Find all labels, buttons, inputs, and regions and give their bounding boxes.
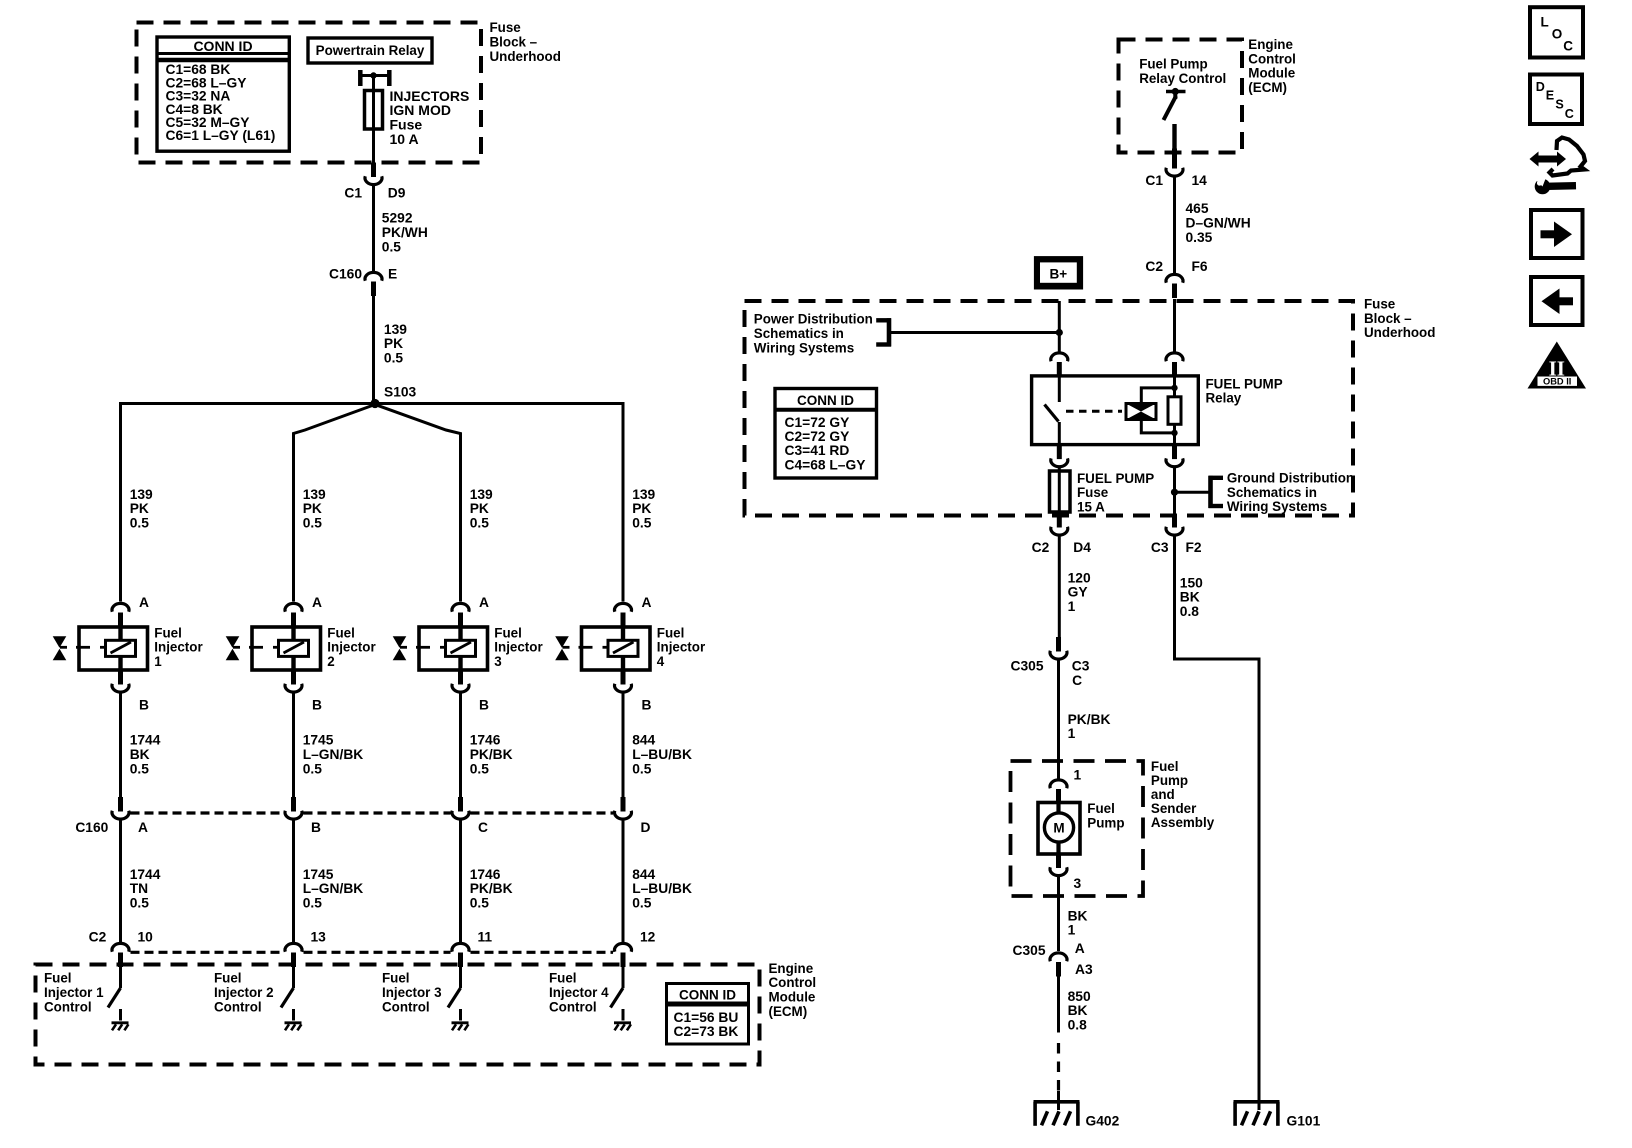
fuel injector 2 pintle valve (226, 636, 240, 660)
svg-text:and: and (1151, 787, 1175, 802)
svg-text:C2=73 BK: C2=73 BK (674, 1024, 739, 1039)
svg-text:M: M (1053, 821, 1064, 836)
svg-text:Underhood: Underhood (490, 49, 561, 64)
label PK/BK 1 (1068, 712, 1111, 741)
svg-text:PK: PK (470, 501, 489, 516)
svg-text:Fuel: Fuel (657, 625, 685, 640)
fuel injector 4 coil (608, 640, 638, 656)
label 139 PK 0.5 (branch 4) (632, 487, 655, 531)
label Fuel Injector 1 Control (44, 971, 104, 1015)
wire injector 2 to C160 (292, 693, 295, 797)
wire to ground injector 3 driver (459, 1009, 462, 1021)
label wire 1744 (lower) (130, 867, 161, 911)
label wire 844 (lower) (632, 867, 692, 911)
fuel injector 4 actuator dashes (579, 646, 609, 649)
fuel injector 1 pintle valve (53, 636, 67, 660)
ECM box (top right) outline (1119, 40, 1243, 153)
svg-text:O: O (1552, 27, 1563, 42)
svg-text:Fuel: Fuel (214, 971, 242, 986)
connector pump pin 1 (1050, 780, 1067, 804)
svg-text:0.5: 0.5 (470, 761, 490, 776)
label Ground Distribution Schematics in Wiring Systems (1227, 471, 1354, 515)
label wire 1744 (upper) (130, 733, 161, 777)
svg-text:844: 844 (632, 733, 655, 748)
label Fuel Injector 4 (657, 625, 706, 669)
label F2 (1186, 540, 1202, 555)
svg-text:L–GN/BK: L–GN/BK (303, 747, 364, 762)
fuel pump and sender assembly outline (1011, 761, 1144, 896)
wire to ground injector 4 driver (622, 1009, 625, 1021)
svg-text:OBD II: OBD II (1543, 377, 1571, 387)
svg-text:C: C (1565, 107, 1574, 121)
label INJECTORS IGN MOD Fuse 10A (390, 88, 470, 147)
wire injector 2 control to ECM (292, 820, 295, 942)
svg-text:Assembly: Assembly (1151, 815, 1215, 830)
connector A injector 1 (112, 603, 129, 627)
label E (388, 267, 397, 282)
connector C305 cavity C3/C (1050, 637, 1067, 659)
svg-text:PK/BK: PK/BK (470, 747, 513, 762)
svg-text:Relay: Relay (1206, 391, 1242, 406)
wire to ground injector 2 driver (292, 1009, 295, 1021)
svg-text:Sender: Sender (1151, 801, 1197, 816)
svg-text:F6: F6 (1192, 259, 1208, 274)
wire relay to fuse (372, 77, 375, 92)
wire injector 1 to C160 (119, 693, 122, 797)
fuel pump relay resistor (1168, 397, 1181, 425)
icon back arrow box (1531, 277, 1583, 325)
connector pump pin 3 (1050, 854, 1067, 876)
svg-text:0.5: 0.5 (130, 761, 150, 776)
svg-text:Power Distribution: Power Distribution (754, 312, 873, 327)
wire B+ down (1058, 301, 1061, 352)
connector B injector 2 (285, 670, 302, 692)
wire 465 D-GN/WH (1173, 177, 1176, 273)
label Fuel Injector 2 (327, 625, 376, 669)
label wire 1745 (lower) (303, 867, 364, 911)
svg-text:L: L (1541, 15, 1549, 30)
svg-text:F2: F2 (1186, 540, 1202, 555)
connector C1/D9 (365, 163, 382, 185)
svg-text:0.5: 0.5 (470, 896, 490, 911)
connector C160 cavity A (112, 797, 129, 819)
wire into ECM driver 4 (622, 967, 625, 988)
svg-text:L–BU/BK: L–BU/BK (632, 747, 692, 762)
svg-text:Injector 1: Injector 1 (44, 985, 104, 1000)
svg-text:Injector: Injector (494, 640, 543, 655)
svg-text:B+: B+ (1049, 266, 1067, 281)
wire injector 3 control to ECM (459, 820, 462, 942)
svg-text:D: D (1536, 80, 1545, 94)
svg-text:D: D (641, 820, 651, 835)
svg-text:1744: 1744 (130, 733, 161, 748)
connector C160 cavity B (285, 797, 302, 819)
svg-text:Fuel: Fuel (382, 971, 410, 986)
svg-text:C1=56 BU: C1=56 BU (674, 1010, 739, 1025)
label BK 1 (1068, 908, 1088, 937)
junction B+ / power distribution (1056, 329, 1063, 336)
label C2 pin 11 (478, 930, 493, 945)
icon wrench with routing arrow (1530, 138, 1586, 195)
fuel injector 1 box (79, 627, 148, 670)
svg-text:B: B (312, 698, 322, 713)
svg-text:139: 139 (130, 487, 153, 502)
fuel injector 3 wire through box (458, 627, 462, 671)
label pin A injector 3 (479, 595, 489, 610)
svg-text:Fuse: Fuse (1077, 485, 1108, 500)
svg-text:Fuel: Fuel (549, 971, 577, 986)
svg-text:0.5: 0.5 (130, 516, 150, 531)
icon LOC box (1530, 7, 1583, 57)
label pin A injector 1 (139, 595, 149, 610)
fuel pump relay control driver switch (1164, 88, 1186, 149)
svg-text:465: 465 (1186, 201, 1209, 216)
svg-text:PK/BK: PK/BK (1068, 712, 1111, 727)
svg-text:L–BU/BK: L–BU/BK (632, 881, 692, 896)
label Fuse Block Underhood (right) (1364, 297, 1435, 341)
label Fuse Block Underhood (left) (490, 20, 561, 64)
fuel pump motor leads (1056, 804, 1060, 853)
svg-text:5292: 5292 (382, 211, 413, 226)
svg-text:1: 1 (1074, 768, 1082, 783)
svg-text:1745: 1745 (303, 867, 334, 882)
connector A injector 4 (615, 603, 632, 627)
fuel injector 3 pintle valve (393, 636, 407, 660)
internal ground injector 2 driver (285, 1023, 302, 1031)
label C2 pin 12 (640, 930, 656, 945)
svg-text:A: A (642, 595, 652, 610)
label Power Distribution Schematics in Wiring Systems (754, 312, 873, 356)
label FUEL PUMP Fuse 15A (1077, 471, 1154, 515)
label C305 (lower) (1013, 943, 1046, 958)
svg-text:CONN ID: CONN ID (679, 988, 736, 1003)
wire PK/BK (1057, 660, 1060, 778)
svg-text:Module: Module (1248, 66, 1295, 81)
svg-text:10 A: 10 A (390, 131, 419, 147)
label wire 1746 (upper) (470, 733, 513, 777)
svg-text:0.5: 0.5 (303, 761, 323, 776)
svg-text:C160: C160 (329, 267, 362, 282)
label wire 1745 (upper) (303, 733, 364, 777)
svg-text:A: A (139, 595, 149, 610)
label 139 PK 0.5 (branch 3) (470, 487, 493, 531)
svg-text:C305: C305 (1011, 659, 1044, 674)
svg-text:S: S (1555, 98, 1563, 112)
svg-text:10: 10 (138, 930, 154, 945)
label pin A injector 4 (642, 595, 652, 610)
svg-text:CONN ID: CONN ID (193, 38, 252, 54)
svg-text:Module: Module (769, 990, 816, 1005)
label Fuel Pump Relay Control (1139, 57, 1226, 86)
fuel injector 3 actuator dashes (416, 646, 446, 649)
wire 150 BK to G101 (1175, 536, 1260, 1101)
svg-text:C1=72 GY: C1=72 GY (785, 415, 850, 430)
ground G101 (1234, 1102, 1280, 1126)
label wire 844 (upper) (632, 733, 692, 777)
label C3 (below block) (1151, 540, 1169, 555)
label cavity A3 (1075, 962, 1093, 977)
wire relay to fuse (1058, 468, 1061, 472)
fuel pump relay coil wiring (1141, 377, 1177, 446)
driver switch injector 3 (448, 988, 461, 1008)
label 139 PK 0.5 (main) (384, 322, 407, 366)
label C160 (329, 267, 362, 282)
CONN ID table (fuse block right) (775, 389, 877, 479)
svg-text:TN: TN (130, 881, 148, 896)
fuse block underhood (left) outline (137, 23, 482, 163)
svg-text:120: 120 (1068, 570, 1091, 585)
connector relay output (left) (1051, 445, 1068, 467)
label C160 cavity D (641, 820, 651, 835)
label C2 pin 13 (311, 930, 327, 945)
svg-text:Control: Control (382, 999, 430, 1014)
svg-text:Wiring Systems: Wiring Systems (1227, 499, 1327, 514)
svg-text:PK: PK (130, 501, 149, 516)
label pin B injector 2 (312, 698, 322, 713)
svg-text:A: A (138, 820, 148, 835)
svg-text:139: 139 (470, 487, 493, 502)
svg-text:0.5: 0.5 (130, 896, 150, 911)
svg-text:CONN ID: CONN ID (797, 393, 854, 408)
label Fuel Injector 3 Control (382, 971, 442, 1015)
svg-text:Control: Control (214, 999, 262, 1014)
svg-text:Fuel: Fuel (44, 971, 72, 986)
svg-text:PK: PK (632, 501, 651, 516)
svg-text:0.5: 0.5 (632, 761, 652, 776)
connector A injector 3 (452, 603, 469, 627)
label D4 (1073, 540, 1091, 555)
Powertrain Relay box (308, 38, 432, 63)
svg-text:Control: Control (769, 975, 817, 990)
svg-text:B: B (642, 698, 652, 713)
svg-text:A: A (1075, 941, 1085, 956)
icon DESC box (1530, 75, 1582, 125)
label pin B injector 3 (479, 698, 489, 713)
fuel pump relay coil (1126, 404, 1156, 420)
svg-text:0.35: 0.35 (1186, 230, 1213, 245)
svg-text:L–GN/BK: L–GN/BK (303, 881, 364, 896)
svg-text:14: 14 (1192, 173, 1208, 188)
label cavity C (1072, 673, 1082, 688)
label C3 cavity (1072, 659, 1090, 674)
powertrain relay output terminal (358, 70, 392, 86)
fuel injector 1 coil (106, 640, 136, 656)
svg-text:Injector 4: Injector 4 (549, 985, 609, 1000)
icon OBD II triangle (1528, 342, 1587, 389)
svg-text:Wiring Systems: Wiring Systems (754, 340, 854, 355)
connector C2/D4 (1051, 516, 1068, 536)
svg-text:3: 3 (494, 654, 501, 669)
label S103 (384, 385, 417, 400)
label Fuel Injector 2 Control (214, 971, 274, 1015)
wire 120 GY (1058, 536, 1061, 638)
label Fuel Injector 3 (494, 625, 543, 669)
connector A injector 2 (285, 603, 302, 627)
svg-text:Fuel Pump: Fuel Pump (1139, 57, 1207, 72)
wire branch injector 2 (294, 405, 376, 602)
label pin B injector 4 (642, 698, 652, 713)
label C2 (ECM connector) (89, 930, 107, 945)
svg-text:Fuel: Fuel (494, 625, 522, 640)
fuel injector 4 box (582, 627, 651, 670)
svg-text:C: C (1072, 673, 1082, 688)
svg-text:Pump: Pump (1151, 773, 1188, 788)
wire branch injector 3 (375, 405, 461, 602)
svg-text:Control: Control (1248, 51, 1296, 66)
wire 850 BK dashed (existing) (1057, 1043, 1060, 1097)
svg-text:C1: C1 (344, 186, 362, 201)
fuel injector 1 wire through box (118, 627, 122, 671)
driver switch injector 4 (611, 988, 624, 1008)
svg-text:Fuse: Fuse (1364, 297, 1395, 312)
internal ground injector 3 driver (452, 1023, 469, 1031)
connector B injector 3 (452, 670, 469, 692)
svg-text:Pump: Pump (1087, 816, 1124, 831)
wire relay ground side (1173, 468, 1176, 516)
svg-text:Injector: Injector (154, 640, 203, 655)
connector C2 pin 13 (285, 943, 302, 967)
svg-text:3: 3 (1074, 876, 1082, 891)
driver switch injector 2 (281, 988, 294, 1008)
driver switch injector 1 (108, 988, 121, 1008)
wire stub into G402 (1057, 1091, 1060, 1110)
fuel injector 2 wire through box (291, 627, 295, 671)
label 139 PK 0.5 (branch 1) (130, 487, 153, 531)
svg-text:Block –: Block – (490, 35, 538, 50)
svg-text:Fuel: Fuel (327, 625, 355, 640)
svg-text:PK: PK (384, 336, 403, 351)
svg-text:0.5: 0.5 (470, 516, 490, 531)
B+ power feed box (1034, 256, 1083, 289)
svg-text:1: 1 (154, 654, 162, 669)
label D9 (388, 186, 406, 201)
svg-text:0.5: 0.5 (303, 516, 323, 531)
internal ground injector 4 driver (614, 1023, 631, 1031)
label Fuel Pump (motor) (1087, 801, 1124, 830)
svg-text:139: 139 (632, 487, 655, 502)
svg-text:0.8: 0.8 (1068, 1018, 1088, 1033)
ECM box (bottom left) outline (36, 965, 760, 1065)
connector relay terminal (left, fuse block internal) (1051, 353, 1068, 377)
wire fuse to block edge (372, 128, 375, 163)
svg-text:C: C (478, 820, 488, 835)
svg-text:Injector: Injector (657, 640, 706, 655)
label C2 pin 10 (138, 930, 154, 945)
label Fuel Injector 1 (154, 625, 203, 669)
fuel injector 4 wire through box (621, 627, 625, 671)
svg-text:1: 1 (1068, 599, 1076, 614)
connector C2 pin 12 (615, 943, 632, 967)
wire fuse to block edge (1058, 511, 1061, 516)
fuel injector 3 box (419, 627, 488, 670)
svg-text:BK: BK (1068, 908, 1088, 923)
wire stub into G101 (1258, 1095, 1261, 1110)
svg-text:Injector 2: Injector 2 (214, 985, 274, 1000)
fuel pump relay box (1032, 376, 1199, 445)
fuse FUEL PUMP 15A (1050, 471, 1071, 512)
wire 139 PK upper (372, 296, 375, 404)
svg-text:Schematics in: Schematics in (754, 326, 844, 341)
label C160 (harness connector) (75, 820, 108, 835)
svg-text:BK: BK (130, 747, 150, 762)
label Engine Control Module ECM (top) (1248, 37, 1296, 95)
connector C1/14 (1166, 149, 1183, 177)
connector C2 pin 10 (112, 943, 129, 967)
ground distribution bracket (1209, 476, 1224, 508)
svg-text:A: A (312, 595, 322, 610)
wire injector 1 control to ECM (119, 820, 122, 942)
label F6 (1192, 259, 1208, 274)
svg-text:Engine: Engine (1248, 37, 1293, 52)
label FUEL PUMP Relay (1206, 376, 1283, 405)
fuel injector 2 actuator dashes (249, 646, 279, 649)
fuel injector 3 coil (446, 640, 476, 656)
fuel pump relay switch (1045, 375, 1060, 446)
svg-text:C2: C2 (1145, 259, 1163, 274)
label G402 (1086, 1114, 1120, 1129)
label 139 PK 0.5 (branch 2) (303, 487, 326, 531)
label C160 cavity A (138, 820, 148, 835)
svg-text:PK/BK: PK/BK (470, 881, 513, 896)
svg-text:4: 4 (657, 654, 665, 669)
svg-text:A: A (479, 595, 489, 610)
fuel pump motor box (1038, 803, 1080, 855)
label wire 1746 (lower) (470, 867, 513, 911)
svg-text:E: E (1546, 89, 1554, 103)
svg-text:Fuel: Fuel (154, 625, 182, 640)
svg-text:Underhood: Underhood (1364, 325, 1435, 340)
svg-text:844: 844 (632, 867, 655, 882)
label C2 (below fuse) (1032, 540, 1050, 555)
wire injector 4 to C160 (622, 693, 625, 797)
svg-text:1746: 1746 (470, 867, 501, 882)
svg-text:(ECM): (ECM) (769, 1004, 808, 1019)
fuse block underhood (right) outline (745, 301, 1354, 516)
svg-text:Fuse: Fuse (490, 20, 521, 35)
label C1 (344, 186, 362, 201)
label 120 GY 1 (1068, 570, 1091, 614)
label 150 BK 0.8 (1180, 575, 1203, 619)
svg-text:C: C (1563, 38, 1573, 53)
svg-text:0.5: 0.5 (632, 516, 652, 531)
svg-text:Ground Distribution: Ground Distribution (1227, 471, 1354, 486)
svg-text:B: B (139, 698, 149, 713)
connector C160 cavity C (452, 797, 469, 819)
svg-text:13: 13 (311, 930, 327, 945)
svg-text:Relay Control: Relay Control (1139, 71, 1226, 86)
svg-text:0.8: 0.8 (1180, 604, 1200, 619)
svg-text:Control: Control (549, 999, 597, 1014)
svg-text:Fuel: Fuel (1087, 801, 1115, 816)
svg-text:G101: G101 (1287, 1114, 1321, 1129)
wire branch injector 1 (119, 402, 122, 602)
connector C160 cavity D (614, 797, 631, 819)
fuel injector 1 actuator dashes (76, 646, 106, 649)
connector C3/F2 (1166, 516, 1183, 536)
wire to ground injector 1 driver (119, 1009, 122, 1021)
icon forward arrow box (1531, 210, 1583, 258)
svg-text:C3: C3 (1151, 540, 1169, 555)
wire to ground distribution (1175, 491, 1211, 494)
svg-text:Powertrain Relay: Powertrain Relay (316, 43, 425, 58)
fuel pump motor (1044, 813, 1073, 842)
junction ground distribution (1171, 489, 1178, 496)
svg-text:S103: S103 (384, 385, 417, 400)
svg-text:Injector 3: Injector 3 (382, 985, 442, 1000)
bus wire at S103 (121, 402, 624, 405)
wire injector 3 to C160 (459, 693, 462, 797)
svg-text:Engine: Engine (769, 961, 814, 976)
